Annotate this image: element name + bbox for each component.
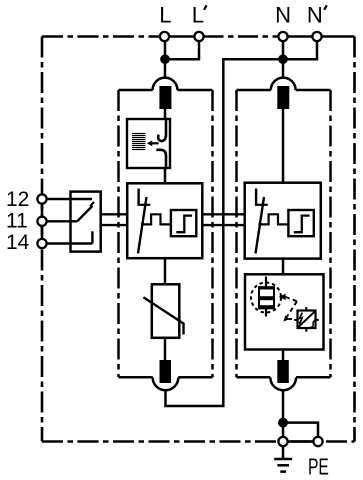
disconnector arc mask N bottom	[270, 375, 296, 391]
wire: terminal 12	[47, 198, 93, 200]
contact blade 11-12	[77, 206, 92, 221]
trigger unit integral sign	[311, 321, 316, 327]
spark gap electrode lower (slanted) N	[256, 197, 265, 253]
wire: N terminal down to N-branch	[282, 41, 285, 79]
double wire: L spark gap box to N spark gap box	[202, 213, 245, 215]
disconnect contact lower hook	[156, 150, 166, 169]
wire: L' down and left to L junction	[165, 41, 199, 59]
disconnect contact upper hook	[158, 118, 166, 141]
fuse element (black) N top	[277, 86, 289, 109]
trigger waveform line N	[258, 214, 288, 224]
node: PE junction dot	[278, 418, 288, 428]
wire: N' down and left to N junction	[283, 41, 317, 59]
wire: N spark gap box to gas discharge tube box	[282, 259, 285, 275]
spark gap electrode lower (slanted) L	[138, 197, 147, 253]
ground symbol	[274, 446, 292, 471]
svg-text:12: 12	[6, 188, 29, 211]
node: L junction dot	[160, 54, 170, 64]
terminal circle PE	[313, 437, 322, 446]
pulse step symbol L	[176, 216, 192, 233]
module box L-branch protection module (solid top/bottom, dash-dot sides)	[119, 90, 213, 377]
terminal circle N	[278, 32, 287, 41]
module box N-branch protection module (solid top/bottom, dash-dot sides)	[237, 90, 331, 377]
svg-text:11: 11	[6, 209, 28, 232]
pulse step symbol N	[294, 216, 310, 233]
varistor diagonal	[143, 297, 183, 334]
node: N junction dot	[278, 54, 288, 64]
disconnector arc mask L bottom	[153, 375, 179, 391]
outer dash-dot enclosure border	[42, 37, 355, 442]
wire: N bottom disconnector to PE node	[282, 390, 285, 437]
double wire: switch box to L spark gap box	[101, 213, 128, 215]
wire: varistor to bottom disconnector L	[164, 338, 167, 362]
GDT electrode bars	[258, 286, 275, 289]
indicator display (striped block)	[132, 134, 146, 150]
GDT dashed circle	[251, 283, 281, 313]
trigger unit lightning bolt	[300, 313, 303, 324]
wire: PE junction to second PE terminal	[283, 423, 318, 437]
varistor box	[152, 284, 180, 338]
svg-text:L: L	[159, 3, 171, 28]
thermal disconnector arc L bottom	[153, 378, 179, 391]
indicator box (status indication device)	[127, 119, 170, 168]
GDT bottom lead	[265, 308, 267, 316]
terminal circle L	[160, 32, 169, 41]
terminal circle N'	[312, 32, 321, 41]
trigger pulse box L	[171, 210, 196, 236]
switch box (changeover contact)	[71, 192, 101, 252]
wire: L-branch output up to N junction (3+1 connection)	[166, 59, 284, 406]
thermal disconnector arc N bottom	[270, 378, 296, 391]
GDT top lead	[265, 277, 267, 288]
fuse element (black) L bottom	[160, 360, 172, 383]
fuse element (black) N bottom	[277, 360, 289, 383]
contact seat 12	[90, 202, 94, 206]
disconnector arc mask N top	[271, 78, 296, 93]
dashed trigger arrow to GDT	[279, 294, 286, 300]
spark gap electrode upper L	[137, 189, 139, 206]
wire: L terminal down to L-branch	[164, 41, 167, 79]
spark gap electrode upper N	[255, 189, 257, 206]
wire: terminal 14	[47, 242, 93, 244]
svg-text:L: L	[192, 3, 204, 28]
contact seat 14 (riser)	[91, 231, 93, 243]
trigger unit diagonal	[299, 312, 315, 327]
svg-text:N: N	[307, 3, 323, 28]
trigger unit box	[298, 311, 316, 329]
wire: fuse to indicator box	[164, 109, 167, 120]
terminal circle 14	[37, 239, 46, 248]
wire: N fuse to N spark gap box	[282, 109, 285, 184]
wire: indicator box to spark gap box L	[164, 168, 167, 184]
indicator arrow	[151, 142, 159, 144]
terminal circle PE ground	[278, 437, 287, 446]
disconnector arc mask L top	[153, 78, 178, 93]
dashed link to trigger box	[289, 318, 295, 320]
terminal circle 12	[37, 194, 46, 203]
svg-text:N: N	[275, 3, 291, 28]
thermal disconnector arc N top	[271, 78, 296, 90]
fuse element (black) L top	[159, 86, 171, 109]
trigger unit leads	[305, 307, 307, 311]
dashed arrowhead 2	[283, 315, 289, 321]
wire: terminal 11	[47, 220, 78, 222]
wire: GDT box to bottom disconnector N	[282, 350, 285, 363]
terminal circle L'	[194, 32, 203, 41]
GDT body outline	[259, 287, 274, 308]
spark gap box N (triggered spark gap)	[245, 183, 321, 259]
gas discharge tube box (N-PE spark gap with trigger)	[245, 274, 324, 349]
trigger pulse box N	[288, 210, 313, 236]
spark gap box L (triggered spark gap)	[127, 183, 202, 258]
svg-text:14: 14	[6, 231, 30, 254]
thermal disconnector arc L top	[153, 78, 178, 90]
terminal circle 11	[37, 217, 46, 226]
svg-text:PE: PE	[308, 454, 329, 480]
trigger waveform line L	[141, 214, 171, 224]
wire: spark gap box to varistor	[164, 258, 167, 284]
